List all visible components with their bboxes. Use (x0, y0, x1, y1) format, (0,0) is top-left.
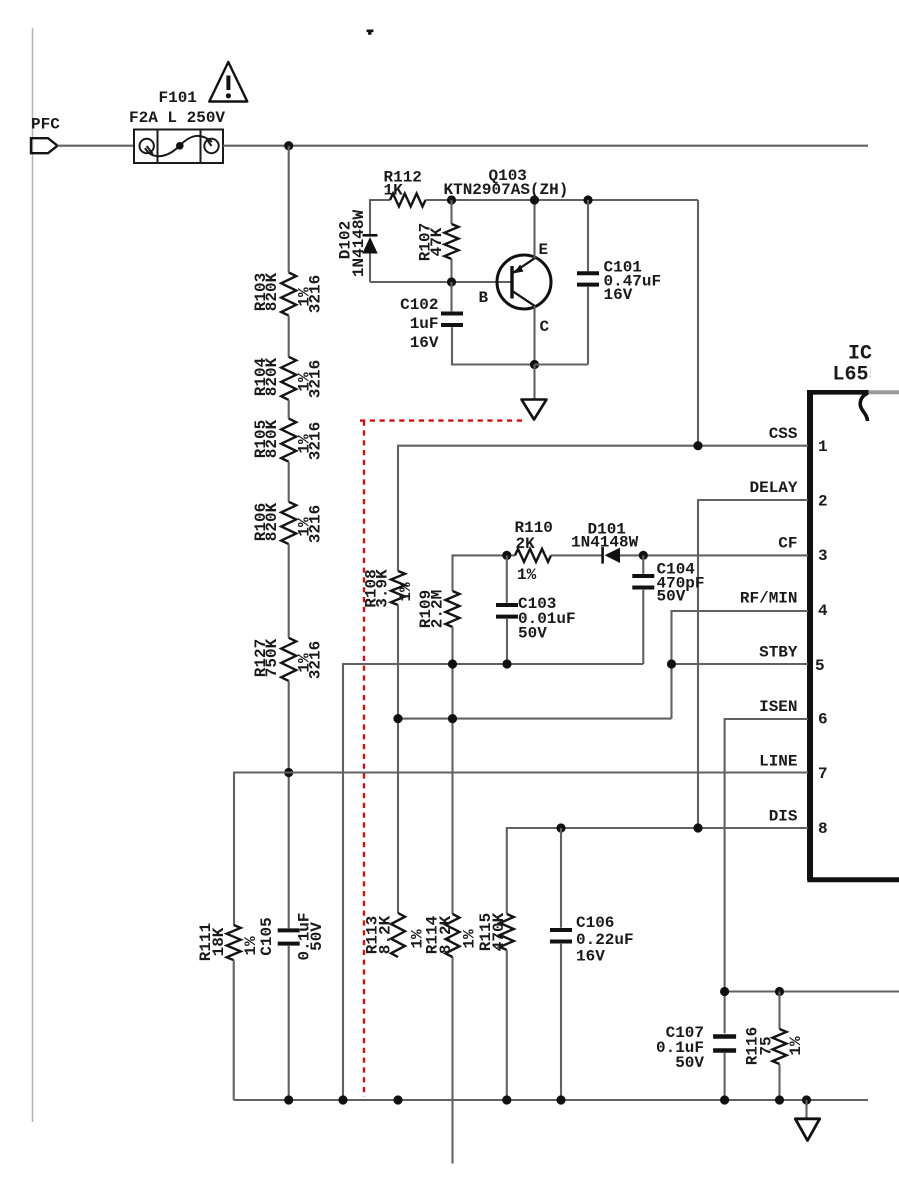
svg-text:16V: 16V (604, 286, 633, 304)
capacitor C101 (577, 271, 599, 275)
resistor R116 (773, 1029, 787, 1064)
svg-text:CF: CF (778, 535, 797, 553)
wire C104 top lead (642, 555, 644, 573)
svg-text:820K: 820K (263, 272, 281, 311)
wire feedback row (398, 718, 672, 720)
svg-text:50V: 50V (308, 922, 326, 951)
wire C103 top lead (506, 555, 508, 602)
wire C103 bottom lead (506, 619, 508, 664)
warning triangle (209, 62, 247, 102)
junction rail2 emitter (530, 195, 539, 204)
wire C101 to gnd line (587, 287, 589, 365)
resistor R106 (281, 502, 296, 544)
wire C106 top lead (560, 828, 562, 928)
junction LINE net (284, 768, 293, 777)
resistor R105 (281, 419, 296, 462)
capacitor C104 (632, 574, 654, 578)
capacitor C102 (441, 312, 463, 316)
svg-text:820K: 820K (263, 502, 281, 541)
svg-text:750K: 750K (263, 638, 281, 677)
svg-text:STBY: STBY (759, 644, 798, 662)
resistor R115 (500, 914, 514, 950)
svg-text:8.2K: 8.2K (377, 915, 395, 954)
svg-text:5: 5 (815, 657, 825, 675)
sheet marker top (367, 30, 374, 35)
svg-text:6: 6 (818, 711, 828, 729)
junction gnd row R109 (448, 659, 457, 668)
resistor R127 (281, 638, 296, 681)
junction ISEN R116 (775, 987, 784, 996)
wire R114 below bus (451, 957, 453, 1164)
junction fuse element (176, 142, 184, 150)
junction bus R115 (502, 1095, 511, 1104)
wire ground stub (805, 1100, 807, 1118)
junction CF C104 (639, 551, 648, 560)
svg-text:CSS: CSS (769, 425, 798, 443)
wire main PFC rail (223, 145, 868, 147)
svg-text:C106: C106 (576, 914, 614, 932)
wire R108 to R113 (397, 605, 399, 913)
capacitor C105 (278, 928, 300, 932)
svg-text:16V: 16V (576, 948, 605, 966)
svg-text:B: B (479, 289, 489, 307)
svg-text:50V: 50V (675, 1054, 704, 1072)
svg-text:1N4148W: 1N4148W (571, 534, 639, 552)
connector PFC (31, 138, 58, 153)
svg-text:C: C (540, 318, 550, 336)
svg-text:7: 7 (818, 765, 828, 783)
wire analog gnd row (343, 664, 643, 1100)
svg-text:3216: 3216 (307, 505, 325, 543)
svg-text:1%: 1% (517, 566, 537, 584)
svg-text:50V: 50V (657, 588, 686, 606)
diode D101 (603, 547, 620, 564)
svg-text:PFC: PFC (31, 116, 60, 134)
diode D102 (362, 235, 377, 253)
svg-text:RF/MIN: RF/MIN (740, 590, 798, 608)
svg-text:820K: 820K (263, 357, 281, 396)
wire R105-R106 (288, 462, 290, 502)
resistor R104 (281, 357, 296, 400)
svg-text:1%: 1% (397, 582, 415, 602)
wire RF/MIN net (672, 611, 809, 719)
svg-text:820K: 820K (263, 419, 281, 458)
svg-text:2.2M: 2.2M (429, 590, 447, 628)
junction rail2 C101 (583, 195, 592, 204)
wire rail2 to R107 (450, 200, 452, 224)
IC U101 body edge (807, 390, 899, 880)
junction base node (447, 277, 456, 286)
wire R106-R127 (288, 544, 290, 638)
resistor R114 (446, 914, 460, 957)
junction DIS DELAY riser (693, 823, 702, 832)
capacitor C103 (496, 603, 518, 607)
svg-text:3216: 3216 (307, 360, 325, 398)
svg-text:1N4148W: 1N4148W (350, 210, 368, 278)
wire gnd node (535, 365, 589, 399)
svg-text:2: 2 (818, 493, 828, 511)
resistor R109 (446, 591, 460, 627)
svg-text:3216: 3216 (307, 422, 325, 460)
junction bus R113 (393, 1095, 402, 1104)
resistor R113 (391, 913, 405, 957)
junction rail2 R107 (447, 195, 456, 204)
wire DIS net (507, 828, 808, 914)
svg-text:C102: C102 (400, 296, 438, 314)
svg-text:1%: 1% (461, 929, 479, 949)
svg-text:IC: IC (848, 343, 872, 366)
wire R116 to bus (778, 1064, 780, 1100)
wire R103-R104 (288, 316, 290, 357)
svg-text:F101: F101 (159, 89, 197, 107)
wire R109 top corner (453, 555, 516, 591)
wire base node to C102 (450, 282, 452, 311)
junction bus C105 (284, 1095, 293, 1104)
sheet border left (32, 28, 34, 1122)
junction bus R116 (775, 1095, 784, 1104)
resistor R110 (515, 549, 551, 562)
svg-text:3: 3 (818, 547, 828, 565)
wire R116 top lead (778, 992, 780, 1030)
ground main (795, 1119, 819, 1141)
junction ISEN C107 (720, 987, 729, 996)
capacitor C106 (550, 928, 572, 932)
junction main rail / divider (284, 141, 293, 150)
wire rail to R103 (288, 146, 290, 273)
svg-text:KTN2907AS(ZH): KTN2907AS(ZH) (444, 181, 569, 199)
svg-text:1uF: 1uF (410, 315, 439, 333)
junction gnd row C103 (502, 659, 511, 668)
svg-text:C105: C105 (258, 917, 276, 955)
svg-text:4: 4 (818, 602, 828, 620)
resistor R108 (391, 571, 405, 605)
junction bus stby-gnd (338, 1095, 347, 1104)
svg-text:8.2K: 8.2K (437, 915, 455, 954)
junction bus C106 (556, 1095, 565, 1104)
svg-text:DELAY: DELAY (749, 479, 797, 497)
junction CSS riser (693, 441, 702, 450)
resistor R107 (445, 224, 459, 259)
wire rail2 to CSS (697, 200, 699, 446)
wire LINE net (234, 773, 808, 926)
wire CSS net (398, 446, 808, 571)
svg-text:470K: 470K (490, 912, 508, 951)
svg-text:8: 8 (818, 820, 828, 838)
junction CF C103 (502, 551, 511, 560)
transistor Q103 (497, 255, 551, 309)
resistor R103 (281, 273, 296, 316)
svg-text:E: E (539, 241, 549, 259)
svg-text:50V: 50V (518, 625, 547, 643)
svg-text:18K: 18K (210, 927, 228, 956)
wire ISEN filter row (725, 990, 899, 992)
isolation boundary dashed (360, 421, 522, 1097)
svg-text:0.22uF: 0.22uF (576, 931, 634, 949)
junction collector gnd node (530, 360, 539, 369)
wire C102 to gnd line (452, 327, 535, 364)
wire CF to pin3 (620, 554, 808, 556)
svg-text:3216: 3216 (307, 641, 325, 679)
resistor R111 (227, 925, 241, 960)
wire DELAY net (698, 500, 808, 828)
wire D102 to base node (370, 281, 511, 283)
svg-text:F2A L 250V: F2A L 250V (129, 109, 225, 127)
IC internal curve (860, 393, 868, 421)
label IC part L65 (833, 364, 881, 387)
svg-text:LINE: LINE (759, 753, 797, 771)
wire rail2 to C101 (587, 200, 589, 271)
svg-text:47K: 47K (428, 227, 446, 256)
wire STBY stub (672, 663, 809, 665)
junction bus ground (802, 1095, 811, 1104)
wire Q103 collector (533, 306, 535, 365)
wire C107 to bus (724, 1053, 726, 1100)
junction STBY riser (667, 659, 676, 668)
wire C106 to bus (560, 944, 562, 1100)
wire R115 to bus (506, 950, 508, 1100)
wire C105 to bus (288, 946, 290, 1100)
junction DIS C106 (556, 823, 565, 832)
svg-text:2K: 2K (516, 535, 536, 553)
svg-text:ISEN: ISEN (759, 698, 797, 716)
junction feedback R108 (393, 714, 402, 723)
wire rail2 right segment (426, 199, 699, 201)
svg-text:16V: 16V (410, 334, 439, 352)
svg-text:1: 1 (818, 438, 828, 456)
capacitor C107 (713, 1034, 736, 1039)
junction bus C107 (720, 1095, 729, 1104)
wire PFC to F101 (58, 145, 136, 147)
wire R104-R105 (288, 400, 290, 419)
junction feedback R109 (448, 714, 457, 723)
wire rail2 left segment (370, 200, 390, 282)
svg-text:75: 75 (758, 1036, 776, 1055)
wire R127 to C105 (288, 681, 290, 928)
fuse F101 (134, 130, 223, 164)
wire ground bus (234, 1099, 868, 1101)
svg-text:3.9K: 3.9K (374, 569, 392, 608)
wire R109 to R114 (451, 627, 453, 914)
wire ISEN net (725, 719, 808, 1033)
svg-text:3216: 3216 (307, 275, 325, 313)
ground Q103 (522, 400, 547, 420)
wire R110 to D101 (551, 554, 602, 556)
wire R111 to bus (233, 960, 235, 1100)
svg-text:1K: 1K (384, 182, 404, 200)
svg-text:1%: 1% (787, 1036, 805, 1056)
wire Q103 emitter (533, 200, 535, 258)
resistor R112 (390, 194, 426, 207)
wire C104 bottom lead (642, 590, 644, 664)
svg-text:DIS: DIS (769, 808, 798, 826)
wire R107 to base node (450, 259, 452, 282)
